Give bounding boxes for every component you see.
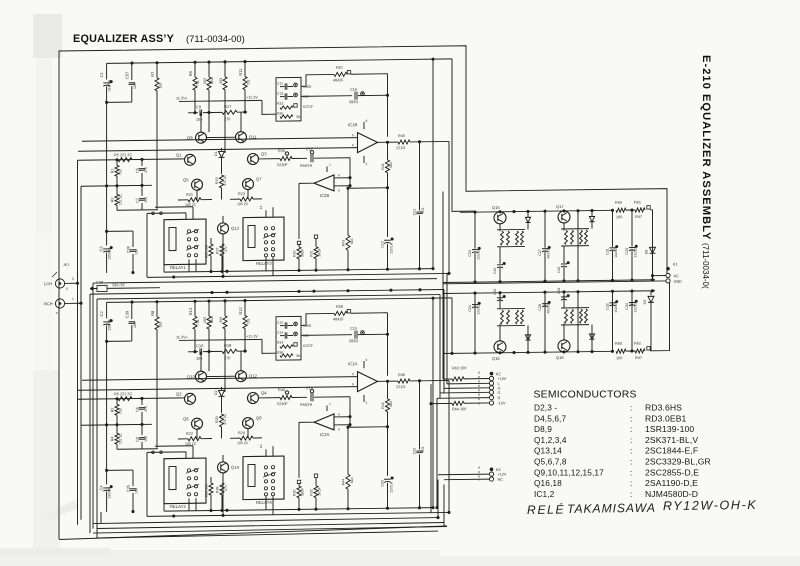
svg-text:R60: R60	[615, 342, 622, 346]
resistor R25 ch1	[209, 244, 213, 256]
svg-text::: :	[630, 413, 632, 423]
svg-text:NC: NC	[498, 478, 504, 482]
svg-text:C17: C17	[306, 147, 313, 151]
wire relay3 bottoms ch2	[265, 496, 267, 510]
wire base link ch2	[206, 375, 236, 377]
feedback network box ch1	[276, 77, 301, 121]
resistor bias	[507, 310, 510, 324]
transistor Q9 ch1	[196, 132, 207, 143]
svg-text:R6 221 2C: R6 221 2C	[114, 392, 132, 396]
handwritten relay note	[527, 498, 758, 517]
svg-text:Q13,14: Q13,14	[534, 446, 562, 456]
svg-text:IC2B: IC2B	[320, 193, 330, 198]
svg-text:(711-0034-00): (711-0034-00)	[186, 33, 245, 44]
resistor R31 ch1	[315, 239, 317, 247]
svg-text:103: 103	[421, 207, 425, 213]
svg-text:IC2A: IC2A	[320, 432, 330, 437]
svg-text:203: 203	[203, 317, 207, 323]
svg-text:R: R	[498, 396, 501, 400]
capacitor C10 ch2	[188, 351, 198, 353]
transistor Q15	[494, 212, 506, 224]
svg-text:Q13: Q13	[231, 226, 240, 231]
svg-text:R68/1H: R68/1H	[300, 403, 313, 407]
svg-text:R5 221 2C: R5 221 2C	[114, 153, 132, 157]
svg-text:010/1H: 010/1H	[108, 79, 112, 91]
svg-text:R31: R31	[310, 250, 314, 257]
svg-text::: :	[630, 489, 632, 499]
resistor bias	[507, 231, 510, 245]
svg-text:E-210 EQUALIZER ASSEMBLY: E-210 EQUALIZER ASSEMBLY	[700, 55, 712, 240]
resistor R46 ch2	[398, 379, 410, 383]
wire 11.3V rail ch1	[179, 100, 262, 101]
resistor bias	[501, 231, 504, 245]
svg-text:R13: R13	[188, 307, 193, 315]
svg-text:2SC1844-E,F: 2SC1844-E,F	[645, 446, 698, 456]
wire k2 column -15V	[430, 384, 432, 513]
zener diode	[589, 216, 594, 221]
svg-text:R59: R59	[615, 201, 622, 205]
wire power bottom right riser	[653, 282, 670, 351]
svg-text:751: 751	[247, 80, 251, 86]
svg-text:R62: R62	[634, 341, 641, 345]
transistor Q1 ch1	[185, 154, 196, 165]
resistor R9 ch1	[194, 62, 196, 77]
capacitor C7 ch2	[141, 424, 143, 435]
wire k3 +12V feed	[438, 473, 489, 476]
zener diode	[525, 335, 530, 340]
svg-text:K221F: K221F	[303, 105, 313, 109]
svg-text:RELÉ: RELÉ	[527, 502, 565, 518]
svg-text:R28: R28	[216, 486, 220, 493]
op-amp IC1B ch1	[358, 132, 378, 152]
svg-text:R61: R61	[634, 200, 641, 204]
wire mid bus C	[90, 290, 444, 295]
wire k2 column L	[446, 273, 448, 384]
svg-text:583G: 583G	[349, 100, 358, 104]
resistor R57 feedback ch2	[301, 313, 334, 325]
wire power left edge	[442, 192, 444, 354]
svg-text:D9: D9	[643, 300, 647, 305]
resistor R35 ch1	[280, 115, 293, 118]
svg-text:Q16: Q16	[492, 356, 500, 361]
wire k3 column NC	[443, 485, 445, 527]
resistor R21 ch2	[178, 438, 188, 440]
input jack LCH	[55, 279, 64, 288]
capacitor C24	[474, 304, 476, 354]
svg-text:C14: C14	[277, 331, 283, 335]
svg-text:C1: C1	[99, 72, 104, 78]
channel 2	[78, 296, 454, 518]
wire bottom bus A2	[93, 518, 438, 524]
svg-text:364: 364	[296, 115, 302, 119]
svg-text:221G: 221G	[396, 146, 405, 150]
svg-text:C16: C16	[350, 88, 357, 92]
svg-text:11.3V+: 11.3V+	[176, 96, 189, 100]
svg-text:AC: AC	[674, 274, 680, 278]
svg-text:751: 751	[247, 319, 251, 325]
vertical title E-210 EQUALIZER ASSEMBLY	[700, 55, 712, 289]
wire cluster ties	[561, 324, 589, 326]
svg-text:C32: C32	[606, 303, 610, 310]
capacitor C11 ch1	[284, 83, 286, 89]
resistor R45 ch1	[398, 140, 410, 144]
svg-text:RCH: RCH	[44, 301, 53, 306]
svg-text:220/1H: 220/1H	[390, 242, 394, 254]
wire R45 drop ch2	[448, 380, 450, 512]
capacitor C57 ch2	[131, 302, 133, 319]
resistor bias	[580, 309, 583, 323]
capacitor C17 ch1	[292, 157, 307, 159]
resistor R44 ch2	[347, 427, 349, 474]
diode D1 ch2	[221, 387, 223, 390]
svg-text:R9: R9	[188, 70, 193, 76]
wire cluster ties	[497, 324, 525, 326]
svg-text:155: 155	[159, 322, 163, 328]
wire bottom bus B2	[97, 523, 444, 529]
wire AC tap	[651, 274, 654, 277]
resistor R15 ch1	[224, 62, 226, 77]
scan artifact top-left	[33, 14, 62, 58]
svg-text:R21: R21	[186, 193, 193, 197]
svg-text:203: 203	[203, 78, 207, 84]
wire left bus 2	[80, 186, 82, 303]
diode D1 ch1	[221, 148, 223, 151]
capacitor C36 ch2	[132, 470, 134, 486]
resistor R64	[431, 402, 452, 404]
svg-text:L: L	[498, 382, 500, 386]
svg-text:152/1E: 152/1E	[614, 303, 618, 313]
wire emitter cap	[499, 297, 501, 309]
wire nest left verticals	[89, 294, 91, 533]
wire k2 G2 feed	[440, 391, 489, 394]
svg-text:M15: M15	[210, 316, 214, 323]
resistor bias	[565, 230, 568, 244]
svg-text:Q7: Q7	[256, 176, 262, 181]
wire emitter cap	[563, 296, 565, 308]
transistor Q3 ch1	[248, 153, 259, 164]
svg-text:C34: C34	[625, 303, 629, 310]
transistor Q18	[558, 340, 570, 352]
svg-text:4842F: 4842F	[333, 78, 344, 82]
connector K2	[490, 372, 494, 376]
svg-text:C13: C13	[277, 92, 283, 96]
svg-text:C29: C29	[557, 267, 561, 273]
capacitor C14 ch2	[284, 332, 286, 338]
wire gate row ch2	[78, 398, 185, 399]
svg-text:203: 203	[219, 317, 223, 323]
wire opamp inputs ch2	[82, 377, 358, 381]
feedback network box ch2	[276, 316, 301, 360]
svg-text:R64 100: R64 100	[452, 407, 466, 411]
wire relay drop ch1	[146, 213, 148, 277]
svg-text:R29: R29	[293, 250, 297, 257]
svg-text:C33: C33	[625, 248, 629, 255]
svg-text:C39: C39	[125, 310, 130, 318]
capacitor C33	[631, 210, 633, 247]
resistor R17 ch1	[222, 110, 237, 114]
resistor R61	[635, 208, 645, 212]
transistor Q6 ch2	[192, 418, 203, 429]
relay RELAY3 ch1	[243, 217, 284, 261]
svg-text:683: 683	[389, 401, 393, 407]
svg-text:100: 100	[616, 356, 622, 360]
svg-text:+11.3V: +11.3V	[246, 334, 258, 338]
wire k3 NC feed	[444, 478, 489, 481]
svg-text:R63 100: R63 100	[452, 366, 466, 370]
svg-text:LCH: LCH	[44, 281, 52, 286]
resistor R3 ch2	[116, 425, 118, 434]
resistor R19 ch1	[220, 175, 224, 188]
svg-text:2SA1190-D,E: 2SA1190-D,E	[645, 478, 698, 488]
transistor Q10 ch2	[196, 371, 207, 382]
svg-text:103: 103	[421, 446, 425, 452]
resistor bias	[501, 310, 504, 324]
resistor R29 ch2	[298, 483, 300, 486]
svg-text:753: 753	[119, 408, 123, 414]
svg-text:220/1H: 220/1H	[390, 481, 394, 493]
op-amp IC2A ch2	[314, 414, 334, 430]
svg-text:5230F: 5230F	[277, 163, 288, 167]
wire lower mid rail	[443, 291, 655, 294]
capacitor C16 feedback ch1	[301, 95, 352, 98]
wire IC2 inputs ch2	[334, 416, 350, 418]
svg-text:470: 470	[144, 167, 148, 173]
svg-text:C36: C36	[127, 246, 131, 253]
svg-text:Q17: Q17	[556, 204, 564, 209]
svg-text:683: 683	[350, 477, 354, 483]
svg-text:R43: R43	[342, 240, 346, 247]
svg-text:751: 751	[196, 319, 200, 325]
svg-text:C29: C29	[557, 288, 561, 294]
wire C17 drop ch2	[349, 397, 351, 428]
svg-text:471 2C: 471 2C	[223, 413, 227, 425]
svg-text:Q1,2,3,4: Q1,2,3,4	[534, 435, 567, 445]
svg-text:R58: R58	[336, 305, 343, 309]
svg-text:R57: R57	[336, 66, 343, 70]
svg-text:Q6: Q6	[183, 416, 189, 421]
svg-text:C19: C19	[381, 241, 385, 248]
wire IC2 output ch2	[299, 421, 314, 423]
svg-text:RELAY4: RELAY4	[256, 500, 272, 505]
svg-text:GND: GND	[674, 280, 683, 284]
svg-text:Q2: Q2	[176, 391, 182, 396]
resistor bias	[580, 230, 583, 244]
svg-text:100: 100	[616, 215, 622, 219]
svg-text:7: 7	[329, 402, 331, 406]
resistor R25 ch2	[209, 483, 213, 495]
svg-text:R19: R19	[215, 177, 219, 184]
svg-text:220/1E: 220/1E	[108, 248, 112, 260]
svg-text:C21: C21	[413, 209, 417, 216]
svg-text:RELAY2: RELAY2	[170, 504, 186, 509]
svg-text:R32: R32	[310, 489, 314, 496]
resistor R7 ch2	[156, 302, 158, 317]
svg-text:C28: C28	[538, 304, 542, 311]
capacitor C38	[90, 288, 97, 290]
wire row2 ch2	[81, 423, 152, 426]
resistor R41 ch2	[387, 381, 389, 399]
resistor R27 ch1	[220, 244, 224, 256]
svg-text:2K0F: 2K0F	[318, 248, 322, 256]
svg-text:5: 5	[352, 133, 354, 137]
wire k2 column G	[443, 290, 445, 394]
svg-text:R47: R47	[635, 356, 642, 360]
wire bus B ch1	[147, 273, 449, 277]
wire relay3 bottoms ch1	[265, 257, 267, 271]
svg-text:R4: R4	[111, 436, 115, 441]
connector K1	[666, 267, 670, 271]
resistor R5 ch2	[118, 397, 132, 401]
wire fb node ch2	[350, 426, 388, 428]
svg-text:153: 153	[144, 436, 148, 442]
svg-text:5: 5	[338, 188, 340, 192]
svg-text:G: G	[498, 391, 501, 395]
svg-text:5230F: 5230F	[277, 402, 288, 406]
svg-text:11.3V+: 11.3V+	[176, 335, 189, 339]
capacitor C22 ch2	[419, 381, 421, 450]
wire IC2 output ch1	[299, 182, 314, 184]
wire bottom bus C2	[93, 526, 447, 533]
capacitor C31	[612, 210, 614, 247]
svg-text::: :	[630, 478, 632, 488]
transistor Q14 ch2	[218, 462, 229, 473]
resistor bias	[571, 230, 574, 244]
wire emitter cap	[499, 247, 501, 264]
svg-text:C3: C3	[99, 246, 104, 252]
wire relay3 feeds ch1	[265, 210, 267, 217]
svg-text:EQUALIZER ASS’Y: EQUALIZER ASS’Y	[73, 33, 175, 45]
capacitor C57 ch1	[131, 63, 133, 80]
transistor Q13 ch1	[218, 223, 229, 234]
wire emitters ch2	[196, 429, 198, 439]
svg-text:D1: D1	[214, 151, 218, 156]
svg-text:101 2C: 101 2C	[119, 193, 123, 205]
svg-text:4R0/1E: 4R0/1E	[547, 303, 551, 314]
svg-text:C24: C24	[468, 305, 472, 312]
svg-text:R33: R33	[277, 102, 283, 106]
svg-text:R46: R46	[398, 373, 405, 377]
resistor bias	[571, 309, 574, 323]
capacitor C36 ch1	[132, 231, 134, 247]
svg-text:162/1E: 162/1E	[614, 248, 618, 258]
svg-text:R40: R40	[278, 388, 285, 392]
svg-text:C10: C10	[196, 343, 204, 348]
svg-text:C27: C27	[538, 249, 542, 256]
capacitor C7 ch1	[141, 185, 143, 196]
wire IC2 inputs ch1	[334, 177, 350, 179]
resistor R13 ch2	[208, 301, 210, 316]
svg-text:+12V: +12V	[498, 473, 507, 477]
diode D8	[652, 210, 654, 247]
svg-text::: :	[630, 446, 632, 456]
resistor bias	[565, 309, 568, 323]
svg-text:JK1: JK1	[63, 263, 69, 267]
svg-text:R3: R3	[111, 197, 115, 202]
resistor R1 ch2	[116, 399, 118, 405]
wire node drop ch1	[432, 59, 434, 269]
svg-text:+15V: +15V	[498, 377, 507, 381]
resistor R60	[616, 349, 626, 353]
wire rail right drop ch1	[452, 59, 475, 212]
svg-text:471: 471	[224, 485, 228, 491]
wire power cluster	[499, 324, 501, 341]
svg-text:150: 150	[159, 83, 163, 89]
op-amp IC1A ch2	[358, 371, 378, 391]
resistor R57 feedback ch1	[301, 74, 334, 86]
svg-text:C25: C25	[493, 267, 497, 273]
capacitor C18 ch2	[292, 396, 307, 398]
transistor Q17	[558, 211, 570, 223]
svg-text:1: 1	[72, 297, 74, 301]
wire relay1 feeds ch2	[147, 451, 186, 454]
resistor R62	[635, 349, 645, 353]
zener diode	[525, 217, 530, 222]
svg-text:R34: R34	[277, 341, 283, 345]
svg-text:104: 104	[133, 83, 137, 89]
svg-text:-15V: -15V	[498, 401, 506, 405]
svg-text:4842F: 4842F	[333, 317, 344, 321]
capacitor C21 ch1	[419, 142, 421, 211]
capacitor C12 ch2	[284, 322, 286, 328]
svg-text:C23: C23	[468, 250, 472, 257]
svg-text:2SC2855-D,E: 2SC2855-D,E	[645, 467, 699, 477]
diode D9	[650, 291, 652, 296]
resistor bias	[585, 230, 588, 244]
wire opamp output ch1	[378, 141, 399, 143]
wire relay1 bottoms ch1	[188, 259, 190, 272]
svg-text::: :	[630, 424, 632, 434]
svg-text:220/1E: 220/1E	[108, 487, 112, 499]
svg-text:104: 104	[135, 249, 139, 255]
svg-text:R20: R20	[215, 416, 219, 423]
svg-text:RELAY1: RELAY1	[170, 265, 186, 270]
svg-text:583G: 583G	[349, 339, 358, 343]
svg-text:330 /1E: 330 /1E	[112, 283, 126, 287]
wire bus A ch2	[164, 508, 433, 511]
svg-text:R18: R18	[224, 343, 232, 348]
svg-text:(711-0034-0(: (711-0034-0(	[701, 243, 710, 289]
svg-text:R23: R23	[238, 192, 245, 196]
transistor Q5 ch1	[192, 179, 203, 190]
svg-text:R35: R35	[277, 112, 283, 116]
transistor Q4 ch2	[248, 392, 259, 403]
wire k2 column G2	[439, 295, 441, 399]
svg-text:RD3.0EB1: RD3.0EB1	[645, 413, 687, 423]
svg-text:105 2C: 105 2C	[237, 441, 249, 445]
wire opamp output ch2	[378, 380, 399, 382]
outer border	[59, 43, 667, 539]
svg-text:6: 6	[338, 173, 340, 177]
transistor Q8 ch2	[243, 417, 254, 428]
svg-text:220/1E: 220/1E	[477, 304, 481, 314]
wire row2 bottom ch1	[117, 209, 158, 212]
wire row2 ch1	[81, 184, 152, 187]
resistor R23 ch2	[230, 437, 240, 439]
svg-text:Q15: Q15	[492, 205, 500, 210]
svg-text:C35: C35	[127, 485, 131, 492]
svg-text:153: 153	[144, 197, 148, 203]
svg-text:2K0F: 2K0F	[318, 487, 322, 495]
svg-text:C22: C22	[413, 448, 417, 455]
resistor R23 ch1	[230, 198, 240, 200]
wire power rail bottom	[443, 351, 613, 353]
resistor R7 ch1	[156, 63, 158, 78]
svg-text:104: 104	[133, 322, 137, 328]
svg-text:R44: R44	[342, 479, 346, 486]
wire top supply rail ch1	[107, 59, 452, 63]
wire power rail top	[460, 210, 613, 212]
svg-text::: :	[630, 457, 632, 467]
